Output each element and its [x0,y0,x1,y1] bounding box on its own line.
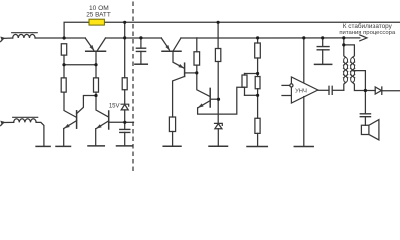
svg-text:К стабилизатору: К стабилизатору [343,22,393,30]
svg-text:25 ВАТТ: 25 ВАТТ [86,12,111,19]
svg-text:15V: 15V [109,103,120,109]
svg-text:УНЧ: УНЧ [295,88,307,94]
svg-text:питания процессора: питания процессора [339,30,396,36]
